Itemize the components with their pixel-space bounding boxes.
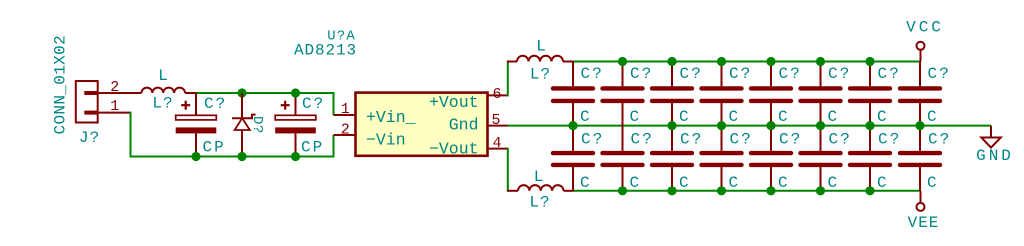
svg-text:CP: CP bbox=[203, 139, 226, 157]
capacitor C27 (bottom row) bbox=[919, 126, 921, 151]
inductor L3 winding bbox=[518, 185, 564, 191]
junction dot bottom of C3 bbox=[291, 152, 300, 161]
wire pin4 riser bbox=[507, 148, 509, 191]
capacitor C24 (bottom row) bbox=[770, 126, 772, 151]
svg-text:C?: C? bbox=[204, 95, 227, 113]
svg-text:C: C bbox=[729, 174, 741, 192]
VCC rail bbox=[573, 61, 921, 63]
pin 2 stub bbox=[334, 134, 357, 136]
capacitor C14 (top row) bbox=[770, 62, 772, 87]
inductor L2 lead right bbox=[563, 61, 574, 63]
svg-text:C?: C? bbox=[878, 65, 902, 83]
capacitor C20 (bottom row) bbox=[572, 126, 574, 151]
svg-text:C: C bbox=[877, 174, 889, 192]
svg-text:C: C bbox=[778, 174, 790, 192]
capacitor C25 (bottom row) bbox=[820, 126, 822, 151]
svg-text:J?: J? bbox=[79, 129, 100, 147]
svg-text:C?: C? bbox=[928, 130, 952, 148]
svg-text:C?: C? bbox=[828, 65, 852, 83]
svg-text:C?: C? bbox=[302, 95, 325, 113]
svg-text:C: C bbox=[630, 108, 642, 126]
pin 5 stub bbox=[487, 125, 508, 127]
svg-text:GND: GND bbox=[976, 147, 1014, 165]
svg-text:C?: C? bbox=[680, 65, 704, 83]
capacitor C21 (bottom row) bbox=[622, 126, 624, 151]
svg-text:C?: C? bbox=[680, 130, 704, 148]
inductor L2 lead left bbox=[507, 61, 517, 63]
inductor L3 lead right bbox=[564, 190, 575, 192]
junction dots top rail bbox=[618, 57, 627, 66]
connector pin 1 pad bbox=[84, 111, 97, 115]
capacitor CP bottom plate bbox=[176, 127, 217, 133]
capacitor CP bottom lead bbox=[195, 133, 197, 156]
svg-text:C: C bbox=[630, 174, 642, 192]
svg-text:C?: C? bbox=[779, 65, 803, 83]
svg-text:C?: C? bbox=[779, 130, 803, 148]
svg-text:VCC: VCC bbox=[906, 19, 944, 37]
svg-text:C: C bbox=[927, 108, 939, 126]
svg-text:1: 1 bbox=[110, 98, 119, 115]
capacitor CP top lead bbox=[195, 93, 197, 115]
svg-text:C: C bbox=[877, 108, 889, 126]
wire riser to pin1 bbox=[333, 92, 335, 115]
diode D? cathode bar (zener) bbox=[232, 115, 256, 119]
svg-text:C?: C? bbox=[630, 65, 654, 83]
svg-text:C: C bbox=[679, 174, 691, 192]
svg-text:D?: D? bbox=[249, 116, 265, 134]
junction dot top of D bbox=[237, 88, 246, 97]
junction dot bottom of D bbox=[237, 152, 246, 161]
capacitor C11 (top row) bbox=[622, 62, 624, 87]
capacitor C15 (top row) bbox=[820, 62, 822, 87]
svg-text:4: 4 bbox=[492, 135, 501, 152]
svg-text:C: C bbox=[828, 108, 840, 126]
svg-text:L: L bbox=[158, 67, 169, 85]
svg-text:C: C bbox=[828, 174, 840, 192]
svg-text:C?: C? bbox=[730, 130, 754, 148]
capacitor C12 (top row) bbox=[671, 62, 673, 87]
wire pin6 riser bbox=[507, 62, 509, 97]
svg-text:5: 5 bbox=[491, 112, 500, 129]
capacitor C10 (top row) bbox=[572, 62, 574, 87]
ground symbol bbox=[990, 126, 992, 138]
inductor L1 winding bbox=[142, 88, 186, 93]
capacitor C17 (top row) bbox=[919, 62, 921, 87]
svg-text:C: C bbox=[679, 108, 691, 126]
diode D? bottom lead bbox=[241, 130, 243, 157]
VEE rail bbox=[574, 190, 921, 192]
capacitor CP bottom lead bbox=[295, 133, 297, 156]
pin 1 stub bbox=[334, 114, 357, 116]
inductor L1 lead bbox=[185, 92, 197, 94]
connector pin 1 stub bbox=[98, 112, 131, 114]
capacitor CP top lead bbox=[295, 93, 297, 115]
svg-text:1: 1 bbox=[341, 101, 350, 118]
svg-text:+Vin_: +Vin_ bbox=[366, 108, 416, 127]
polarity plus sign bbox=[181, 104, 190, 106]
wire from connector pin1 down bbox=[130, 112, 132, 157]
svg-text:2: 2 bbox=[110, 79, 119, 96]
capacitor C23 (bottom row) bbox=[721, 126, 723, 151]
capacitor CP bottom plate bbox=[275, 127, 316, 133]
svg-text:6: 6 bbox=[492, 86, 501, 103]
connector pin 2 pad bbox=[84, 91, 97, 95]
GND rail (pin5) bbox=[508, 125, 991, 127]
capacitor C26 (bottom row) bbox=[869, 126, 871, 151]
svg-text:AD8213: AD8213 bbox=[294, 42, 357, 60]
capacitor C22 (bottom row) bbox=[671, 126, 673, 151]
svg-text:C: C bbox=[778, 108, 790, 126]
junction dots middle rail bbox=[568, 121, 577, 130]
connector J? body bbox=[76, 81, 98, 123]
svg-text:C?: C? bbox=[631, 130, 655, 148]
svg-text:C: C bbox=[580, 174, 592, 192]
capacitor C13 (top row) bbox=[721, 62, 723, 87]
wire bottom node bbox=[130, 156, 334, 158]
svg-text:C?: C? bbox=[581, 130, 605, 148]
svg-text:VEE: VEE bbox=[908, 214, 940, 232]
pin 6 stub bbox=[487, 94, 508, 96]
inductor L3 lead left bbox=[507, 190, 518, 192]
junction dot bottom of C2 bbox=[191, 152, 200, 161]
svg-text:C: C bbox=[580, 108, 592, 126]
capacitor CP top plate bbox=[176, 115, 217, 120]
pin 4 stub bbox=[487, 148, 508, 150]
op-amp U?A body bbox=[356, 93, 488, 156]
svg-text:C?: C? bbox=[878, 130, 902, 148]
connector pin 2 stub bbox=[98, 92, 142, 94]
svg-text:CONN_01X02: CONN_01X02 bbox=[52, 35, 70, 135]
power flag VEE bbox=[917, 203, 925, 211]
diode D? triangle bbox=[235, 118, 250, 130]
junction dots bottom rail bbox=[618, 186, 627, 195]
capacitor C16 (top row) bbox=[869, 62, 871, 87]
svg-text:C: C bbox=[927, 174, 939, 192]
svg-text:L: L bbox=[534, 168, 545, 186]
svg-text:+Vout: +Vout bbox=[429, 93, 479, 112]
inductor L2 winding bbox=[517, 56, 563, 62]
svg-text:L?: L? bbox=[152, 95, 173, 113]
svg-text:C: C bbox=[729, 108, 741, 126]
svg-text:L?: L? bbox=[529, 194, 550, 212]
svg-text:L?: L? bbox=[530, 66, 551, 84]
svg-text:Gnd: Gnd bbox=[449, 116, 479, 135]
svg-text:2: 2 bbox=[341, 122, 350, 139]
svg-text:C?: C? bbox=[581, 65, 605, 83]
svg-text:C?: C? bbox=[729, 65, 753, 83]
svg-text:CP: CP bbox=[301, 139, 324, 157]
svg-text:−Vout: −Vout bbox=[429, 140, 479, 159]
svg-text:C?: C? bbox=[928, 65, 952, 83]
diode D? top lead bbox=[241, 93, 243, 118]
svg-text:C?: C? bbox=[829, 130, 853, 148]
capacitor CP top plate bbox=[275, 115, 316, 120]
polarity plus sign bbox=[281, 104, 290, 106]
svg-text:−Vin: −Vin bbox=[366, 131, 406, 150]
wire riser from pin2 bbox=[333, 135, 335, 158]
svg-text:L: L bbox=[536, 38, 547, 56]
wire top node bbox=[196, 92, 334, 94]
junction dot top of C3 bbox=[291, 88, 300, 97]
power flag VCC bbox=[917, 42, 925, 50]
